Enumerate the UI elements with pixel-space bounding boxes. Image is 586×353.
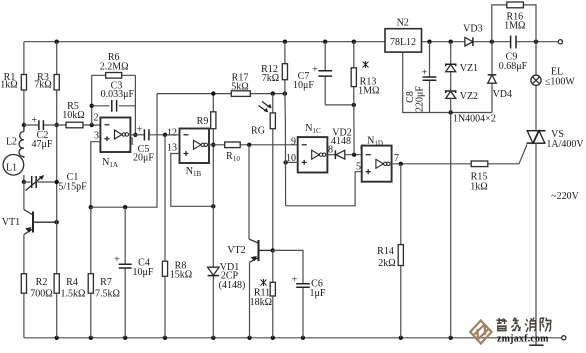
inductor L2 <box>23 125 25 158</box>
resistor R11 (below VT2 base node) <box>272 250 274 282</box>
svg-text:5/15pF: 5/15pF <box>58 181 87 192</box>
svg-text:N2: N2 <box>397 17 409 28</box>
svg-text:R7: R7 <box>100 277 112 288</box>
capacitor C6 <box>296 284 310 288</box>
svg-text:1μF: 1μF <box>310 288 326 299</box>
svg-text:L1: L1 <box>6 163 17 174</box>
wire N1B output row to N1C pin9 <box>209 144 298 146</box>
resistor R16 loop <box>492 5 536 42</box>
wire R11 to bottom rail <box>272 296 274 338</box>
svg-text:R2: R2 <box>36 277 48 288</box>
wire R12 bottom down through pin10 node to U-wire <box>284 94 287 206</box>
svg-text:1A/400V: 1A/400V <box>546 139 584 150</box>
resistor R4 <box>54 274 59 294</box>
svg-text:700Ω: 700Ω <box>30 288 52 299</box>
svg-text:220μF: 220μF <box>415 86 426 112</box>
svg-text:VD4: VD4 <box>493 89 512 100</box>
wire N1C output to VD2 <box>327 154 335 156</box>
wire R8 column (pin12 node down to R8) <box>164 135 166 261</box>
watermark Chinese text (drawn strokes) <box>496 318 550 332</box>
zener VZ2 <box>446 91 456 93</box>
node bottom rail junction dots <box>55 336 59 340</box>
diode VD2 <box>334 150 336 159</box>
resistor R1 <box>21 75 26 91</box>
resistor R5 <box>66 122 83 128</box>
op-amp N1C <box>298 137 328 172</box>
svg-text:RG: RG <box>251 125 265 136</box>
svg-text:0.68μF: 0.68μF <box>499 61 528 72</box>
svg-text:R4: R4 <box>66 277 78 288</box>
node C3 left junction <box>90 104 94 108</box>
svg-text:1kΩ: 1kΩ <box>470 181 487 192</box>
resistor R2 <box>21 274 26 294</box>
transistor VT2 <box>258 240 260 261</box>
resistor R8 <box>162 261 167 276</box>
wire R9 bottom through output row to feedback node <box>212 129 214 207</box>
node R9 at output row <box>211 143 215 147</box>
svg-text:+: + <box>292 275 298 286</box>
wire R15 to VS gate <box>488 145 527 164</box>
wire top rail from N2 to VD3 <box>422 41 465 43</box>
wire R1 to C2 node <box>23 90 25 125</box>
op-amp N1D <box>362 146 392 182</box>
node R3 column at C1 row <box>55 180 59 184</box>
svg-text:0.033μF: 0.033μF <box>101 89 135 100</box>
svg-text:7: 7 <box>394 153 399 164</box>
transistor VT1 <box>32 212 34 233</box>
node R10 output junction <box>247 143 251 147</box>
wire N1D output row <box>392 163 472 165</box>
photoresistor RG <box>272 94 274 113</box>
diode VD1 <box>208 267 219 275</box>
node R3 column at C2 row <box>55 123 59 127</box>
wire bottom ground rail <box>24 337 562 339</box>
svg-text:18kΩ: 18kΩ <box>250 297 272 308</box>
svg-text:1MΩ: 1MΩ <box>504 21 525 32</box>
svg-text:78L12: 78L12 <box>390 37 416 48</box>
wire VD1 column (feedback node down) <box>212 206 214 337</box>
resistor R6 <box>92 74 136 76</box>
capacitor C1 (variable) <box>24 181 57 183</box>
wire EL to VS <box>535 85 537 130</box>
node R17 wire at RG column <box>271 91 275 95</box>
svg-text:20μF: 20μF <box>133 153 154 164</box>
node top-right AC terminal <box>558 40 562 44</box>
node N2 ground wire at VZ column <box>449 110 453 114</box>
node R17 wire at R9 column <box>211 91 215 95</box>
wire N1A output row with C5 <box>130 134 179 136</box>
wire R8 to bottom rail <box>164 276 166 338</box>
svg-text:10μF: 10μF <box>133 267 154 278</box>
svg-text:+: + <box>422 67 428 78</box>
svg-text:R9: R9 <box>197 116 209 127</box>
capacitor C3 <box>92 105 136 107</box>
resistor R9 <box>211 112 216 129</box>
resistor R10 <box>225 142 241 148</box>
svg-text:VZ1: VZ1 <box>460 63 478 74</box>
wire VT2 emitter down to bottom rail <box>249 262 251 338</box>
node N1A pin2 junction <box>90 123 94 127</box>
svg-text:R14: R14 <box>377 246 394 257</box>
diode VD3 (on rail) <box>465 37 473 46</box>
node pin3 vertical at segment A <box>89 205 93 209</box>
node C5/pin12/R8 junction <box>163 133 167 137</box>
wire segment A (pin3 node to corner) <box>91 94 157 208</box>
wire VT2 base node to C6 <box>273 250 303 283</box>
svg-text:zmjaxf.com: zmjaxf.com <box>497 334 549 345</box>
wire VZ2 down to bottom rail <box>450 98 452 337</box>
resistor R7 <box>88 274 93 294</box>
svg-text:2: 2 <box>94 113 99 124</box>
watermark logo <box>470 321 491 344</box>
wire R2 to bottom rail <box>23 293 25 338</box>
node C4 top junction <box>123 205 127 209</box>
capacitor C8 <box>429 42 431 113</box>
svg-text:VT1: VT1 <box>2 217 20 228</box>
wire R13 node down to VD2/pin6 node <box>353 105 355 155</box>
wire feedback right vertical (R6/C3 down to N1A output) <box>134 75 136 135</box>
wire VD3 to C9 <box>473 41 510 43</box>
wire C7 bottom to R13 node <box>325 104 354 106</box>
inductor L1 loop <box>3 155 24 176</box>
resistor R12 and column <box>284 42 286 94</box>
wire pin5 U-path (pin10 node to N1D pin5) <box>286 172 362 206</box>
svg-text:VT2: VT2 <box>227 245 245 256</box>
svg-text:2kΩ: 2kΩ <box>378 258 395 269</box>
svg-text:47μF: 47μF <box>32 139 53 150</box>
wire N1B pin13 feedback path <box>171 154 214 207</box>
node VD2/pin6/R13 junction <box>352 153 356 157</box>
wire VS down through bottom rail to earth stub <box>535 143 537 344</box>
svg-text:7.5kΩ: 7.5kΩ <box>95 288 120 299</box>
resistor R13 and column <box>353 42 355 105</box>
wire top supply rail left section <box>24 41 385 43</box>
svg-text:1N4004×2: 1N4004×2 <box>453 114 496 125</box>
node pin10 junction <box>283 160 287 164</box>
wire left column top (rail to R1) <box>23 42 25 75</box>
reference mark for R13 <box>363 61 369 68</box>
wire L1 to C1 node <box>23 175 25 182</box>
wire R17 row <box>157 93 285 95</box>
svg-text:(4148): (4148) <box>219 280 246 291</box>
op-amp N1A <box>100 118 130 153</box>
svg-text:12: 12 <box>167 127 177 138</box>
svg-text:+: + <box>312 65 318 76</box>
node rail junction dots <box>55 40 59 44</box>
triac VS <box>527 131 546 143</box>
wire R5 to N1A pin2 <box>83 124 100 126</box>
regulator N2 78L12 <box>385 29 422 52</box>
diode VD4 and column <box>491 42 493 113</box>
node C2/L2 junction <box>22 123 26 127</box>
node feedback at output row <box>133 133 137 137</box>
svg-text:9: 9 <box>291 136 296 147</box>
node VT2 base junction <box>271 248 275 252</box>
node VT1 base junction <box>55 220 59 224</box>
capacitor C5 <box>144 129 149 140</box>
svg-text:10μF: 10μF <box>293 80 314 91</box>
wire N1A pin3 stub and vertical down <box>91 142 101 208</box>
wire R14 to bottom rail <box>400 266 402 338</box>
wire N1C pin10 stub <box>286 161 298 163</box>
node R17 wire right end (R12/pin10 column) <box>283 91 287 95</box>
svg-text:≤100W: ≤100W <box>545 76 575 87</box>
svg-text:VD3: VD3 <box>463 24 482 35</box>
resistor R14 (from output node down) <box>400 164 402 245</box>
svg-text:1MΩ: 1MΩ <box>358 85 379 96</box>
wire VZ1 to VZ2 <box>450 72 452 91</box>
wire R9 column top (R17 wire to R9) <box>212 94 214 112</box>
resistor R17 <box>231 91 250 97</box>
svg-text:VZ2: VZ2 <box>460 91 478 102</box>
wire C9 to top-right terminal <box>516 41 558 43</box>
node feedback at R9 column <box>211 204 215 208</box>
svg-text:+: + <box>137 125 143 136</box>
svg-text:~220V: ~220V <box>551 191 579 202</box>
svg-text:15kΩ: 15kΩ <box>170 270 192 281</box>
wire C6 to bottom rail <box>302 288 304 338</box>
capacitor C4 <box>124 207 126 338</box>
svg-text:5: 5 <box>356 161 361 172</box>
lamp EL <box>535 42 537 75</box>
svg-text:2.2MΩ: 2.2MΩ <box>100 61 129 72</box>
wire RG column down to VT2 base node <box>272 129 274 251</box>
svg-text:5kΩ: 5kΩ <box>231 82 248 93</box>
wire N2 ground pin down and right <box>403 52 492 112</box>
wire R3 column middle (through C2 row, C1 row, VT1 base) <box>56 90 58 274</box>
wire R7 to bottom rail <box>90 293 92 338</box>
svg-text:7kΩ: 7kΩ <box>34 80 51 91</box>
wire pin3/R7 vertical continues to R7 <box>90 207 92 274</box>
capacitor C2 <box>24 124 66 126</box>
wire R3 column top <box>56 42 58 75</box>
svg-text:3: 3 <box>94 131 99 142</box>
capacitor C7 and column <box>324 42 326 105</box>
resistor R3 <box>54 75 59 91</box>
zener VZ1 <box>450 42 452 65</box>
svg-text:1: 1 <box>130 136 135 147</box>
node C7/R13 junction <box>352 103 356 107</box>
svg-text:13: 13 <box>167 142 177 153</box>
svg-text:+: + <box>31 115 37 126</box>
svg-text:1kΩ: 1kΩ <box>0 80 17 91</box>
earth bar below rail <box>529 344 543 346</box>
op-amp N1B <box>180 129 210 164</box>
wire VT2 collector vertical (to R10 node) <box>248 145 250 239</box>
node C1 left junction <box>22 180 26 184</box>
svg-text:+: + <box>114 255 120 266</box>
wire R4 to bottom rail <box>56 293 58 338</box>
node output 7 junction <box>399 162 403 166</box>
resistor R15 <box>471 161 488 167</box>
svg-text:L2: L2 <box>6 137 17 148</box>
wire VT1 emitter down to R2 <box>23 235 25 274</box>
node bottom-right AC terminal <box>562 336 566 340</box>
reference mark for R11 <box>261 279 267 286</box>
wire feedback left vertical (pin2 up to R6/C3) <box>91 75 93 125</box>
svg-text:4148: 4148 <box>331 136 351 147</box>
capacitor C9 (on rail) <box>511 36 516 49</box>
svg-text:1.5kΩ: 1.5kΩ <box>61 288 86 299</box>
svg-text:7kΩ: 7kΩ <box>262 73 279 84</box>
wire C1 node down to VT1 collector <box>23 182 25 210</box>
svg-text:10kΩ: 10kΩ <box>62 110 84 121</box>
